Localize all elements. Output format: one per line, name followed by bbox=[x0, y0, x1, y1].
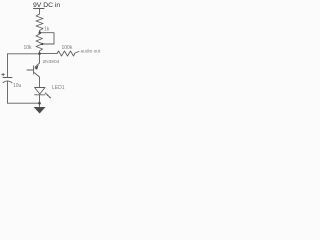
wire node B to 100k bbox=[40, 53, 58, 55]
wire bottom rail to ground node bbox=[8, 102, 40, 104]
wire left rail down to capacitor bbox=[7, 54, 9, 78]
LED D1 emission arrow 1 bbox=[45, 93, 48, 96]
transistor Q1 upper diagonal (arrow toward bar) bbox=[35, 63, 40, 67]
capacitor C1 10u plates bbox=[3, 78, 12, 83]
terminal 9V DC in bbox=[34, 9, 45, 15]
svg-text:LED1: LED1 bbox=[52, 85, 65, 91]
svg-text:10u: 10u bbox=[13, 83, 22, 89]
wire node B down to transistor collector bbox=[39, 54, 41, 63]
resistor R1 1k bbox=[36, 14, 43, 33]
svg-text:9V DC in: 9V DC in bbox=[33, 2, 60, 9]
wire LED to ground bbox=[39, 95, 41, 107]
wire node B to left rail (top of box) bbox=[8, 53, 40, 55]
transistor Q1 lower diagonal bbox=[34, 73, 39, 77]
svg-text:100k: 100k bbox=[62, 45, 73, 51]
transistor emitter arrowhead bbox=[35, 65, 39, 70]
svg-text:2N3904: 2N3904 bbox=[43, 59, 60, 65]
transistor Q1 base stub bbox=[27, 69, 34, 71]
wire capacitor to bottom rail bbox=[7, 81, 9, 103]
wire emitter to LED bbox=[39, 77, 41, 87]
svg-text:audio out: audio out bbox=[81, 49, 101, 55]
LED D1 emission arrow 2 bbox=[47, 95, 50, 98]
svg-text:1k: 1k bbox=[44, 27, 50, 33]
ground symbol bbox=[34, 107, 46, 114]
LED emission arrowhead 2 bbox=[49, 96, 51, 98]
resistor R2 10k bbox=[36, 34, 43, 54]
wire loop from node A to tap of 10k bbox=[40, 33, 55, 44]
resistor R3 100k bbox=[57, 51, 79, 56]
LED emission arrowhead 1 bbox=[47, 94, 49, 96]
transistor Q1 base bar bbox=[33, 66, 35, 74]
junction node B bbox=[38, 52, 41, 55]
svg-text:10k: 10k bbox=[24, 45, 33, 51]
junction node A bbox=[39, 31, 42, 34]
capacitor plus sign bbox=[2, 73, 5, 76]
junction tap on 10k bbox=[41, 43, 43, 45]
junction ground node bbox=[38, 102, 41, 105]
LED D1 triangle bbox=[35, 88, 45, 95]
LED D1 cathode bar bbox=[35, 94, 45, 96]
